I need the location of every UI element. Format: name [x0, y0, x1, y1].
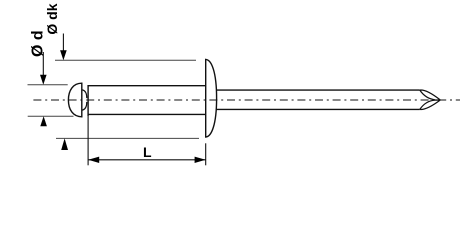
dimension L left extension line: [87, 116, 89, 165]
rivet body: [88, 86, 206, 116]
dimension Ø dk bottom extension line: [56, 137, 199, 139]
dimension Ø dk top extension line: [55, 59, 196, 61]
mandrel neck arcs: [82, 90, 87, 110]
dimension Ø d lower arrow: [40, 116, 47, 126]
centerline: [33, 99, 460, 101]
dimension Ø dk lower arrow: [61, 138, 68, 150]
dimension Ø d bottom extension line: [28, 115, 74, 117]
mandrel head (dome): [68, 83, 81, 117]
mandrel stem: [217, 90, 420, 109]
mandrel tip: [420, 90, 441, 109]
flange (rivet head): [206, 59, 217, 137]
dimension L right extension line: [205, 143, 207, 165]
dimension L right arrowhead: [195, 157, 206, 163]
dimension Ø d upper arrow: [42, 52, 44, 76]
dimension Ø dk upper arrow: [62, 34, 64, 52]
svg-text:Ø dk: Ø dk: [44, 3, 60, 34]
dimension L line: [88, 159, 205, 161]
dimension L left arrowhead: [88, 157, 99, 163]
svg-text:L: L: [143, 144, 152, 160]
dimension Ø d top extension line: [28, 84, 68, 86]
